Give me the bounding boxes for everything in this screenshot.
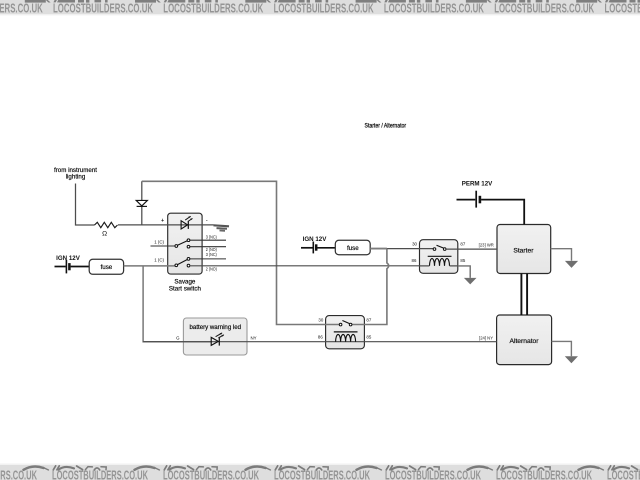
svg-text:30: 30	[412, 242, 417, 247]
svg-text:1 (C): 1 (C)	[154, 239, 164, 244]
svg-text:LOCOSTBUILDERS.CO.UK: LOCOSTBUILDERS.CO.UK	[605, 2, 640, 16]
wire PERM to starter top	[481, 200, 524, 225]
wire main rail switch 2NO to relay K1 pin 86	[190, 265, 420, 267]
band edge speckle top	[0, 14, 640, 15]
svg-text:Start switch: Start switch	[169, 286, 202, 293]
svg-text:3 (NC): 3 (NC)	[206, 235, 217, 240]
fuse F1	[89, 259, 123, 274]
wire fuse tee down to relay K2 pin 87 with hop	[352, 249, 389, 325]
battery symbol B2	[301, 247, 313, 249]
svg-text:G: G	[176, 335, 180, 340]
wire fuse F2 output to relay K1 pin 30	[370, 248, 433, 250]
svg-text:Savage: Savage	[174, 279, 196, 286]
svg-text:IGN 12V: IGN 12V	[56, 255, 81, 262]
svg-text:86: 86	[412, 258, 417, 263]
wire alternator to ground	[552, 341, 572, 356]
svg-text:LOCOSTBUILDERS.CO.UK: LOCOSTBUILDERS.CO.UK	[0, 467, 37, 480]
wire fuse F1 to switch pin 1C	[124, 265, 176, 267]
wire resistor to switch pin +	[118, 224, 214, 226]
svg-text:2 (NO): 2 (NO)	[206, 267, 217, 272]
battery symbol B1	[55, 266, 66, 268]
svg-text:1 (C): 1 (C)	[154, 257, 164, 262]
ground alternator	[565, 356, 578, 363]
wire K1 87 to starter	[446, 248, 497, 250]
svg-text:30: 30	[318, 318, 323, 323]
starter box body	[497, 225, 551, 274]
svg-text:LOCOSTBUILDERS.CO.UK: LOCOSTBUILDERS.CO.UK	[274, 2, 374, 16]
watermark band top	[0, 0, 640, 16]
svg-text:lighting: lighting	[66, 173, 86, 180]
svg-text:Starter / Alternator: Starter / Alternator	[365, 122, 407, 129]
relay K2 coil	[334, 331, 358, 333]
svg-text:LOCOSTBUILDERS.CO.UK: LOCOSTBUILDERS.CO.UK	[163, 2, 263, 16]
alternator box body	[497, 315, 552, 365]
relay K1 contact	[433, 248, 436, 251]
band edge speckle bottom	[0, 463, 640, 464]
relay K1 coil	[428, 255, 452, 257]
ground starter	[565, 261, 578, 268]
diode D1	[136, 200, 147, 206]
fuse F2	[335, 240, 370, 254]
relay K2 contact	[339, 323, 342, 326]
svg-text:[24] NY: [24] NY	[479, 335, 493, 340]
svg-text:85: 85	[460, 258, 465, 263]
wire from lighting to resistor	[76, 184, 95, 226]
svg-text:LOCOSTBUILDERS.CO.UK: LOCOSTBUILDERS.CO.UK	[53, 2, 153, 16]
svg-text:+: +	[161, 218, 164, 224]
earth ground near switch	[214, 225, 230, 231]
svg-text:-: -	[206, 218, 208, 224]
relay K1 body	[420, 240, 458, 274]
switch box U1 body	[168, 213, 202, 274]
svg-text:battery warning led: battery warning led	[190, 324, 242, 331]
svg-text:LOCOSTBUILDERS.CO.UK: LOCOSTBUILDERS.CO.UK	[494, 2, 594, 16]
svg-text:LOCOSTBUILDERS.CO.UK: LOCOSTBUILDERS.CO.UK	[0, 2, 43, 16]
svg-text:87: 87	[460, 242, 465, 247]
wire starter to ground	[551, 249, 572, 261]
svg-text:[23] WR: [23] WR	[479, 242, 494, 247]
resistor R1	[95, 222, 118, 227]
bottom rail G led NY relay K2 85 to alternator	[143, 341, 497, 343]
svg-text:IGN 12V: IGN 12V	[303, 236, 328, 243]
wire diode branch vertical	[141, 181, 143, 225]
svg-text:86: 86	[318, 335, 323, 340]
battery warning led box body	[183, 318, 247, 355]
svg-text:87: 87	[366, 318, 371, 323]
svg-text:3 (NC): 3 (NC)	[206, 252, 217, 257]
battery symbol B3	[457, 199, 476, 201]
wire K1 85 to ground	[420, 265, 458, 267]
LED inside switch	[181, 221, 188, 229]
svg-text:fuse: fuse	[101, 264, 113, 271]
svg-text:Ω: Ω	[102, 231, 107, 238]
wire junction down to led box G	[143, 266, 211, 342]
svg-text:LOCOSTBUILDERS.CO.UK: LOCOSTBUILDERS.CO.UK	[384, 2, 484, 16]
wire big loop: diode top to relay K2 pin 30	[142, 181, 340, 324]
watermark band bottom	[0, 465, 640, 480]
relay K2 body	[326, 316, 365, 349]
svg-text:NY: NY	[251, 335, 257, 340]
switch pole 1	[151, 245, 176, 247]
double wire starter alternator	[521, 274, 527, 316]
svg-text:PERM 12V: PERM 12V	[462, 180, 493, 187]
svg-text:Alternator: Alternator	[510, 338, 540, 345]
wire fuse F2 output stub	[370, 248, 387, 250]
svg-text:fuse: fuse	[347, 245, 359, 252]
ground K1	[464, 278, 477, 285]
switch pole 2	[190, 258, 226, 260]
svg-text:85: 85	[366, 335, 371, 340]
LED D2 in warning box	[211, 337, 218, 345]
svg-text:Starter: Starter	[513, 247, 534, 254]
